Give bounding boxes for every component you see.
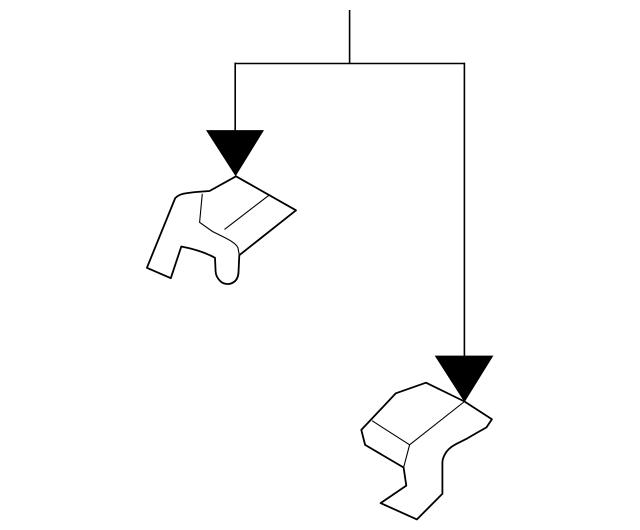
part outline left bracket <box>147 176 296 284</box>
wire horizontal bar <box>235 63 465 65</box>
part outline right bracket <box>361 383 492 520</box>
callout arrow left <box>207 131 263 176</box>
wire left drop <box>234 63 236 132</box>
wire stem top <box>349 10 351 64</box>
fold line left bracket <box>200 194 240 255</box>
wire right drop <box>463 63 465 357</box>
fold line right bracket c <box>404 445 410 468</box>
face line left bracket <box>225 195 270 230</box>
fold line right bracket a <box>372 421 410 445</box>
callout arrow right <box>436 356 493 401</box>
fold line right bracket b <box>410 402 465 445</box>
